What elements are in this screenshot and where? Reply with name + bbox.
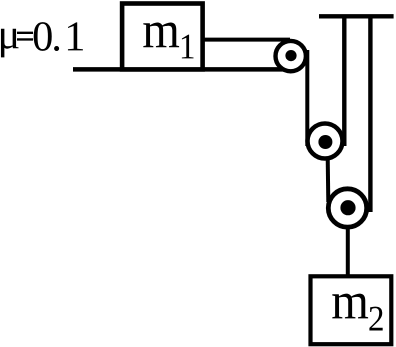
table surface	[73, 67, 296, 72]
label equals sign	[17, 32, 32, 40]
wire: rope from ceiling to pulley P3	[368, 16, 372, 212]
wire: rope from pulley P3 axle down to m2	[346, 208, 350, 278]
wire: rope from pulley P1 down to pulley P2	[305, 50, 309, 146]
block m2	[311, 276, 392, 344]
pulley P3	[328, 189, 366, 227]
ceiling support	[319, 14, 394, 18]
pulley P2	[308, 124, 343, 159]
wire: rope from pulley P2 axle down to pulley P3	[326, 150, 331, 202]
label m2	[332, 294, 368, 319]
pulley P1	[276, 41, 306, 71]
label m1	[143, 23, 179, 48]
block m1	[122, 4, 203, 70]
label mu	[1, 29, 19, 58]
wire: rope from ceiling to pulley P2	[342, 16, 346, 146]
wire: rope from m1 to pulley P1	[203, 38, 290, 42]
label value 0.1	[34, 22, 52, 51]
